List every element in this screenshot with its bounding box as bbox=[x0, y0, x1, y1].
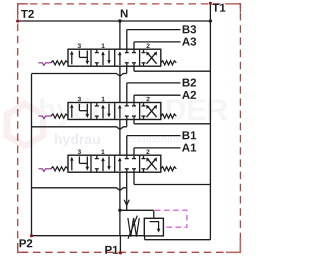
svg-text:2: 2 bbox=[146, 96, 150, 103]
svg-text:hydrau: hydrau bbox=[54, 131, 101, 147]
svg-text:1: 1 bbox=[101, 149, 105, 156]
svg-text:T2: T2 bbox=[21, 9, 34, 21]
svg-text:2: 2 bbox=[146, 43, 150, 50]
svg-text:1: 1 bbox=[101, 43, 105, 50]
svg-text:N: N bbox=[120, 8, 128, 20]
svg-text:A3: A3 bbox=[182, 37, 197, 49]
svg-text:B2: B2 bbox=[182, 78, 197, 90]
svg-text:P1: P1 bbox=[104, 245, 119, 257]
svg-text:hydrauLIDER: hydrauLIDER bbox=[38, 94, 228, 127]
svg-text:3: 3 bbox=[78, 43, 82, 50]
svg-text:2: 2 bbox=[146, 149, 150, 156]
svg-text:P2: P2 bbox=[19, 238, 33, 250]
svg-text:B3: B3 bbox=[182, 24, 197, 36]
svg-text:3: 3 bbox=[78, 96, 82, 103]
svg-text:B1: B1 bbox=[182, 130, 197, 142]
svg-text:1: 1 bbox=[101, 96, 105, 103]
svg-text:A2: A2 bbox=[182, 90, 197, 102]
svg-text:A1: A1 bbox=[182, 143, 197, 155]
svg-text:T1: T1 bbox=[212, 3, 226, 15]
svg-text:3: 3 bbox=[77, 149, 81, 156]
